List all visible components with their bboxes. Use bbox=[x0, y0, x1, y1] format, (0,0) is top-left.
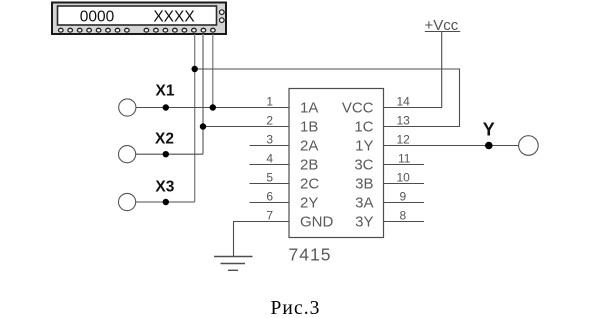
svg-text:5: 5 bbox=[266, 171, 273, 185]
power +Vcc bbox=[425, 17, 461, 34]
node junction B-pin2 bbox=[200, 123, 206, 129]
svg-text:0000: 0000 bbox=[80, 9, 115, 26]
terminal X1 bbox=[119, 99, 136, 116]
svg-text:GND: GND bbox=[300, 214, 334, 231]
svg-text:X2: X2 bbox=[155, 130, 174, 147]
wire from indicator to X3 net (vertical A) bbox=[194, 34, 196, 202]
IC pin labels left column bbox=[300, 100, 334, 231]
wire pin 6 stub bbox=[250, 202, 290, 204]
svg-text:Y: Y bbox=[483, 120, 495, 140]
wire X3 net to pin 13 (1C) bbox=[195, 69, 460, 127]
svg-text:X3: X3 bbox=[155, 179, 174, 196]
svg-text:13: 13 bbox=[397, 114, 411, 128]
wire Vcc to pin 14 bbox=[384, 32, 442, 108]
svg-text:3A: 3A bbox=[355, 195, 373, 212]
pin numbers left bbox=[266, 95, 273, 223]
svg-text:2: 2 bbox=[266, 114, 273, 128]
wire X2 horizontal bbox=[136, 153, 203, 155]
svg-text:1: 1 bbox=[266, 95, 273, 109]
wire X1 to pin 1 bbox=[136, 107, 289, 109]
svg-text:8: 8 bbox=[400, 209, 407, 223]
svg-text:VCC: VCC bbox=[342, 100, 374, 117]
terminal X3 bbox=[119, 193, 136, 210]
wire pin 3 stub bbox=[250, 145, 290, 147]
wire pin 5 stub bbox=[250, 183, 290, 185]
wire pin 12 (1Y) to Y terminal bbox=[384, 145, 519, 147]
svg-text:XXXX: XXXX bbox=[153, 9, 195, 26]
svg-text:6: 6 bbox=[266, 190, 273, 204]
svg-text:7415: 7415 bbox=[289, 245, 332, 265]
svg-text:3C: 3C bbox=[354, 157, 373, 174]
svg-text:2A: 2A bbox=[300, 138, 318, 155]
wire pin 11 stub bbox=[384, 164, 425, 166]
node on X1 wire bbox=[163, 104, 169, 110]
svg-text:7: 7 bbox=[266, 209, 273, 223]
digital indicator P1 bbox=[52, 3, 226, 35]
op IC U1 7415 body bbox=[289, 89, 384, 238]
svg-text:10: 10 bbox=[397, 171, 411, 185]
svg-text:12: 12 bbox=[397, 133, 411, 147]
terminal X2 bbox=[119, 146, 136, 163]
wire from indicator to X1 net (vertical C) bbox=[212, 34, 214, 108]
svg-text:2C: 2C bbox=[300, 176, 319, 193]
svg-text:1B: 1B bbox=[300, 119, 318, 136]
svg-text:1Y: 1Y bbox=[355, 138, 373, 155]
wire pin 2 (1B) bbox=[203, 126, 289, 128]
svg-text:9: 9 bbox=[400, 190, 407, 204]
IC pin labels right column bbox=[342, 100, 374, 231]
wire pin 8 stub bbox=[384, 221, 425, 223]
wire X3 horizontal bbox=[136, 201, 195, 203]
ground bbox=[214, 257, 253, 271]
wire pin 10 stub bbox=[384, 183, 425, 185]
wire pin 7 to ground bbox=[234, 222, 290, 257]
svg-text:1A: 1A bbox=[300, 100, 318, 117]
svg-text:X1: X1 bbox=[156, 83, 175, 100]
terminal Y bbox=[519, 136, 539, 156]
svg-text:2B: 2B bbox=[300, 157, 318, 174]
wire from indicator to X2 net (vertical B) bbox=[202, 34, 204, 154]
svg-text:Рис.3: Рис.3 bbox=[270, 298, 320, 318]
svg-text:11: 11 bbox=[398, 152, 411, 166]
node on X2 wire bbox=[163, 151, 169, 157]
node junction C-X1 bbox=[210, 104, 216, 110]
svg-text:14: 14 bbox=[397, 95, 411, 109]
node on Y wire bbox=[485, 142, 493, 150]
node junction A-1C bbox=[192, 66, 198, 72]
svg-text:3Y: 3Y bbox=[355, 214, 373, 231]
wire pin 4 stub bbox=[250, 164, 290, 166]
pin numbers right bbox=[397, 95, 411, 223]
svg-text:1C: 1C bbox=[354, 119, 373, 136]
svg-text:2Y: 2Y bbox=[300, 195, 318, 212]
node on X3 wire bbox=[163, 199, 169, 205]
svg-text:4: 4 bbox=[266, 152, 273, 166]
wire pin 9 stub bbox=[384, 202, 425, 204]
svg-text:3: 3 bbox=[266, 133, 273, 147]
svg-text:3B: 3B bbox=[355, 176, 373, 193]
